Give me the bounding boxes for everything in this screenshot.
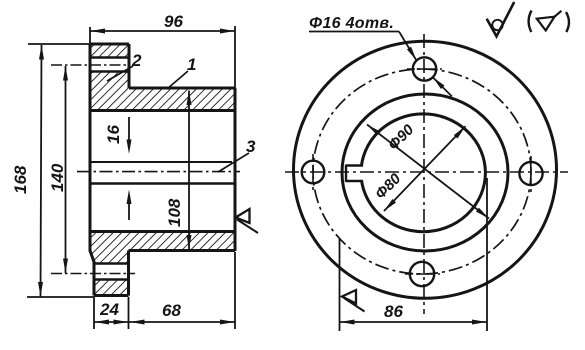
dimension 96 arrow left xyxy=(91,29,106,34)
bolt hole top xyxy=(413,57,436,80)
surface finish symbol tail right view xyxy=(344,298,365,312)
surface finish symbol tail left view xyxy=(237,220,258,234)
axis centerline left view xyxy=(77,171,240,173)
bolt hole top edge (lower) xyxy=(94,262,129,265)
svg-text:1: 1 xyxy=(187,55,196,74)
horizontal centerline right view xyxy=(285,171,568,173)
dimension phi90 diagonal line xyxy=(367,125,489,219)
part outline: flange right edge upper xyxy=(128,44,131,88)
part outline: left chamfer xyxy=(90,251,94,263)
dimension 140 arrow top xyxy=(63,66,68,81)
svg-text:108: 108 xyxy=(165,198,184,227)
dimension 96 line xyxy=(91,30,235,32)
dimension phi80 diagonal line xyxy=(384,126,466,211)
bolt hole bottom xyxy=(410,262,434,286)
keyway left edge xyxy=(345,165,347,183)
dimension 68 arrow right xyxy=(220,320,235,325)
part outline: flange lower left edge xyxy=(93,261,96,296)
surface finish symbol right view xyxy=(342,290,356,304)
part outline: flange bottom edge xyxy=(94,294,129,297)
roughness triangle symbol xyxy=(537,17,555,31)
part outline: hub bottom edge xyxy=(129,249,236,252)
bore bottom edge xyxy=(90,230,235,233)
bolt hole bottom edge (upper) xyxy=(90,70,129,73)
vertical centerline right view xyxy=(423,34,425,314)
leader 3 xyxy=(218,153,249,172)
dimension 86 line xyxy=(340,321,487,323)
roughness checkmark symbol xyxy=(487,2,515,36)
keyway top line xyxy=(346,164,363,166)
dimension 24 arrow left xyxy=(95,320,110,325)
bore top edge xyxy=(90,109,235,112)
extension line 96 right xyxy=(234,26,236,88)
part outline: hub right edge xyxy=(234,88,237,251)
bolt hole top edge (upper) xyxy=(90,56,129,59)
hub circle (phi 90) xyxy=(342,94,508,251)
dimension 96 arrow right xyxy=(220,29,235,34)
dimension 24 arrow right xyxy=(114,320,129,325)
label phi16 far segment xyxy=(433,77,453,97)
dimension 68 arrow left xyxy=(130,320,145,325)
hatch flange mid + hub top band xyxy=(90,72,235,111)
bolt hole bottom edge (lower) xyxy=(94,278,129,281)
dimension 168 arrow top xyxy=(39,45,44,60)
hatch flange top band xyxy=(90,44,129,58)
svg-text:24: 24 xyxy=(99,300,119,319)
right hole cross tick xyxy=(530,156,532,192)
dimension 86 arrow right xyxy=(472,320,487,325)
keyway upper line section xyxy=(90,161,232,163)
svg-text:96: 96 xyxy=(164,12,183,31)
parenthesis left xyxy=(529,11,532,33)
label phi16 leader segment xyxy=(399,32,417,61)
surface finish symbol left view xyxy=(236,209,250,223)
leader 1 xyxy=(167,71,188,89)
bolt hole left xyxy=(302,161,325,184)
outer flange circle xyxy=(294,41,557,298)
dimension 168 line xyxy=(41,45,42,297)
extension line 168 top xyxy=(28,43,95,45)
svg-text:140: 140 xyxy=(48,163,67,192)
bore circle (phi 80) xyxy=(361,114,485,232)
part outline: hub top edge xyxy=(129,87,235,90)
keyway lower line section xyxy=(90,182,236,185)
dimension phi80 arrow NE xyxy=(454,126,466,138)
dimension phi90 arrow NW xyxy=(367,125,380,136)
dimension phi90 arrow SE xyxy=(476,208,489,219)
roughness checkmark circle xyxy=(492,20,502,30)
label phi16 underline xyxy=(309,31,399,33)
dimension 108 arrow bottom xyxy=(187,235,192,250)
roughness triangle tick xyxy=(555,11,562,17)
extension line 24/68 middle xyxy=(128,297,130,329)
bolt hole centerline upper xyxy=(51,64,130,66)
extension line 86 left xyxy=(339,238,341,331)
dimension 168 arrow bottom xyxy=(38,282,43,297)
parenthesis right xyxy=(566,12,569,32)
dimension 24-68 line xyxy=(95,321,235,323)
extension line 68 right xyxy=(234,252,236,329)
part outline: flange left edge xyxy=(89,44,92,252)
dimension 140 arrow bottom xyxy=(63,259,68,274)
part outline: flange top edge xyxy=(90,43,129,46)
top hole cross tick xyxy=(407,68,442,70)
svg-text:Φ16 4отв.: Φ16 4отв. xyxy=(309,15,394,32)
keyway bottom line xyxy=(346,180,363,182)
hatch flange bottom small band xyxy=(94,280,129,296)
dimension phi80 arrow SW xyxy=(384,199,396,211)
svg-text:86: 86 xyxy=(384,302,403,321)
bolt circle (dash-dot) xyxy=(313,69,531,274)
bottom hole cross tick xyxy=(405,273,440,275)
label phi16 arrow near xyxy=(407,47,417,61)
svg-text:168: 168 xyxy=(11,165,30,194)
svg-text:16: 16 xyxy=(104,125,123,144)
extension line 96 left xyxy=(89,27,91,44)
label phi16 arrow far xyxy=(433,77,445,89)
dimension 108 arrow top xyxy=(187,91,192,106)
dimension 16 arrow down xyxy=(127,140,132,155)
hatch hub bottom band xyxy=(90,232,235,264)
part outline: flange right edge lower xyxy=(127,251,130,296)
bolt hole centerline lower xyxy=(51,273,135,275)
extension line 168 bottom xyxy=(27,296,94,298)
dimension 16 upper segment xyxy=(128,117,130,147)
keyway gap mask xyxy=(353,167,371,181)
dimension 16 arrow up xyxy=(127,190,132,205)
dimension 86 arrow left xyxy=(340,320,355,325)
left hole cross tick xyxy=(312,154,314,190)
extension line 24 left xyxy=(93,297,95,329)
bolt hole right xyxy=(519,162,542,185)
leader 2 xyxy=(107,66,133,81)
svg-text:68: 68 xyxy=(162,301,181,320)
extension line 86 right xyxy=(486,178,488,331)
dimension 108 line xyxy=(188,91,190,250)
dimension 16 lower segment xyxy=(128,196,130,220)
dimension 140 line xyxy=(65,66,67,273)
